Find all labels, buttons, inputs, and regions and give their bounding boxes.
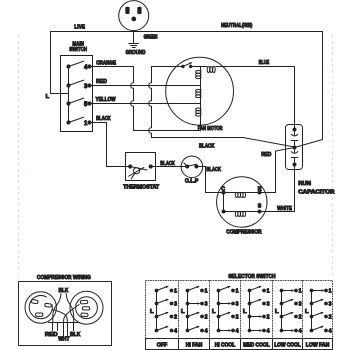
svg-text:4: 4 [174, 329, 177, 335]
selector position HI FAN [181, 285, 208, 335]
svg-text:L: L [275, 309, 279, 315]
main switch pole 1 [66, 117, 91, 125]
svg-text:4: 4 [299, 329, 302, 335]
wire ground stem [133, 31, 135, 44]
svg-text:LOW FAN: LOW FAN [306, 342, 330, 348]
wire motor switch line [152, 66, 183, 68]
wire harness manifold [53, 323, 74, 337]
svg-text:RED: RED [45, 332, 58, 338]
svg-text:3: 3 [299, 302, 302, 308]
main switch pole 3 [66, 80, 91, 88]
svg-text:1: 1 [236, 289, 239, 295]
svg-text:1: 1 [205, 289, 208, 295]
svg-text:3: 3 [205, 302, 208, 308]
terminal BL [222, 210, 226, 214]
svg-text:4: 4 [84, 65, 88, 71]
compressor C-S vertical [223, 193, 225, 212]
connector plug left [25, 292, 56, 323]
svg-text:LIVE: LIVE [74, 24, 85, 30]
selector column separator 1 [178, 281, 180, 339]
svg-text:WHT: WHT [58, 337, 70, 343]
svg-text:1: 1 [329, 289, 332, 295]
wire live left vertical [50, 32, 52, 94]
wire blk harness left [53, 294, 61, 323]
svg-text:COMPRESSOR: COMPRESSOR [226, 230, 261, 236]
selector position OFF [150, 285, 177, 335]
svg-text:BLACK: BLACK [96, 116, 111, 122]
svg-text:GREEN: GREEN [144, 35, 158, 41]
svg-text:LOW COOL: LOW COOL [274, 342, 301, 348]
selector switch box [146, 281, 333, 339]
compressor start winding line [224, 192, 260, 194]
svg-text:2: 2 [267, 315, 270, 321]
svg-text:BLUE: BLUE [259, 60, 270, 66]
svg-text:L: L [150, 309, 154, 315]
wire blk harness right [66, 294, 74, 323]
svg-text:RUN: RUN [298, 181, 311, 187]
motor winding coil 2 [196, 89, 201, 92]
wire motor line to aux coil [191, 66, 207, 68]
svg-text:2: 2 [299, 315, 302, 321]
svg-text:1: 1 [299, 289, 302, 295]
compressor wiring box [19, 282, 112, 346]
selector position LOW FAN [305, 289, 332, 335]
wire orange horizontal [90, 66, 134, 68]
terminal C [222, 191, 226, 195]
ground [129, 44, 139, 48]
compressor run winding line [224, 211, 260, 213]
overload protector OLP [181, 156, 203, 178]
svg-text:CAPACITOR: CAPACITOR [298, 190, 334, 196]
wire black from pole 1 [90, 123, 131, 167]
wire scan margin right (faint) [332, 36, 334, 278]
svg-text:1: 1 [267, 289, 270, 295]
compressor M2 [217, 177, 267, 227]
wire live/neutral top horizontal [51, 31, 323, 33]
compressor winding coil top [235, 192, 238, 197]
svg-text:1: 1 [84, 121, 88, 127]
motor internal switch [181, 61, 193, 68]
selector label row [146, 339, 333, 350]
svg-text:ORANGE: ORANGE [96, 60, 116, 66]
svg-text:3: 3 [84, 84, 88, 90]
svg-text:5: 5 [84, 102, 88, 108]
wire black motor lead to capacitor [152, 138, 295, 148]
wire L feed into main switch [51, 93, 69, 95]
svg-text:4: 4 [329, 329, 332, 335]
svg-text:2: 2 [205, 315, 208, 321]
svg-text:L: L [46, 94, 50, 100]
motor winding coil 1 [196, 71, 201, 74]
motor aux winding coil [207, 66, 210, 72]
wire yellow [90, 103, 201, 105]
wire main switch bus [68, 67, 70, 123]
svg-text:BLK: BLK [70, 332, 80, 338]
fan motor M1 [166, 57, 234, 125]
wire neutral right vertical [295, 32, 323, 148]
svg-text:HI FAN: HI FAN [186, 342, 203, 348]
svg-text:THERMOSTAT: THERMOSTAT [123, 184, 159, 190]
selector position HI COOL [212, 285, 239, 335]
svg-text:RED: RED [96, 79, 107, 85]
main switch S1 [61, 56, 93, 132]
svg-text:2: 2 [236, 315, 239, 321]
power plug P1 [119, 1, 149, 31]
main switch pole 5 [66, 98, 91, 106]
svg-text:BLACK: BLACK [199, 144, 214, 150]
run capacitor C1 [286, 125, 303, 170]
svg-text:BLK: BLK [59, 288, 69, 294]
wire blue [216, 67, 295, 128]
wire white capacitor to compressor S [260, 166, 295, 211]
selector column separator 2 [209, 281, 211, 339]
selector column separator 5 [302, 281, 304, 339]
wire orange vertical with hops [131, 67, 134, 131]
wire orange bottom run to motor winding [134, 130, 201, 132]
svg-text:2: 2 [174, 315, 177, 321]
svg-text:L: L [181, 309, 185, 315]
selector column separator 3 [240, 281, 242, 339]
thermostat TH1 [126, 153, 156, 181]
svg-text:COMPRESSOR WIRING: COMPRESSOR WIRING [37, 275, 91, 281]
terminal R [258, 191, 262, 195]
svg-text:S: S [258, 204, 262, 210]
motor main winding vertical [200, 67, 202, 131]
svg-text:SWITCH: SWITCH [69, 47, 87, 53]
wire motor switch drop with hops [149, 67, 152, 138]
terminal S [258, 210, 262, 214]
selector position MED COOL [243, 285, 270, 335]
wire red [90, 85, 201, 87]
svg-text:4: 4 [267, 329, 270, 335]
svg-text:MED COOL: MED COOL [243, 342, 270, 348]
svg-text:WHITE: WHITE [277, 206, 292, 212]
svg-text:NEUTRAL(RIB): NEUTRAL(RIB) [221, 23, 252, 29]
svg-text:4: 4 [236, 329, 239, 335]
svg-text:3: 3 [329, 302, 332, 308]
wire red capacitor to compressor R [260, 148, 295, 193]
wire harness cross [64, 305, 80, 323]
wire black thermostat to OLP [151, 166, 187, 168]
motor winding coil 3 [196, 108, 201, 111]
svg-text:L: L [305, 309, 309, 315]
svg-text:3: 3 [267, 302, 270, 308]
svg-text:RED: RED [261, 152, 271, 158]
svg-text:3: 3 [174, 302, 177, 308]
connector socket right [70, 291, 103, 324]
svg-text:C: C [221, 187, 225, 193]
compressor winding coil bottom [235, 211, 238, 216]
selector column separator 4 [272, 281, 274, 339]
svg-text:YELLOW: YELLOW [96, 97, 117, 103]
svg-text:O.L.P: O.L.P [185, 178, 199, 184]
svg-text:GROUND: GROUND [126, 50, 146, 56]
svg-text:2: 2 [329, 315, 332, 321]
svg-text:4: 4 [205, 329, 208, 335]
wire harness from plug [52, 310, 67, 323]
main switch pole 4 [66, 61, 91, 69]
svg-text:1: 1 [174, 289, 177, 295]
svg-text:HI COOL: HI COOL [215, 342, 236, 348]
svg-text:L: L [212, 309, 216, 315]
svg-text:3: 3 [236, 302, 239, 308]
svg-text:BLACK: BLACK [206, 167, 221, 173]
svg-text:L: L [243, 309, 247, 315]
wire scan margin left (faint) [18, 36, 20, 278]
svg-text:R: R [258, 187, 262, 193]
svg-text:OFF: OFF [157, 342, 168, 348]
svg-text:BLACK: BLACK [160, 161, 175, 167]
wire black OLP to compressor C [196, 167, 223, 193]
selector position LOW COOL [275, 289, 302, 335]
svg-text:FAN MOTOR: FAN MOTOR [198, 126, 223, 132]
svg-text:SELECTOR SWITCH: SELECTOR SWITCH [228, 274, 275, 280]
